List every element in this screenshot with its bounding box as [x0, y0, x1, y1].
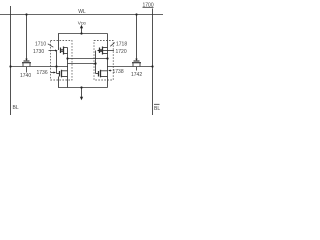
- svg-text:1700: 1700: [143, 3, 154, 9]
- svg-text:1736: 1736: [37, 70, 48, 76]
- svg-text:1718: 1718: [116, 42, 127, 48]
- svg-text:WL: WL: [78, 9, 86, 15]
- svg-text:1730: 1730: [33, 49, 44, 55]
- svg-text:1738: 1738: [113, 69, 124, 75]
- svg-text:1740: 1740: [20, 73, 31, 79]
- svg-text:BL: BL: [154, 106, 160, 112]
- svg-text:1742: 1742: [131, 72, 142, 78]
- svg-text:BL: BL: [13, 105, 19, 111]
- svg-text:1710: 1710: [35, 42, 46, 48]
- svg-text:VDD: VDD: [78, 20, 87, 25]
- svg-text:1720: 1720: [116, 49, 127, 55]
